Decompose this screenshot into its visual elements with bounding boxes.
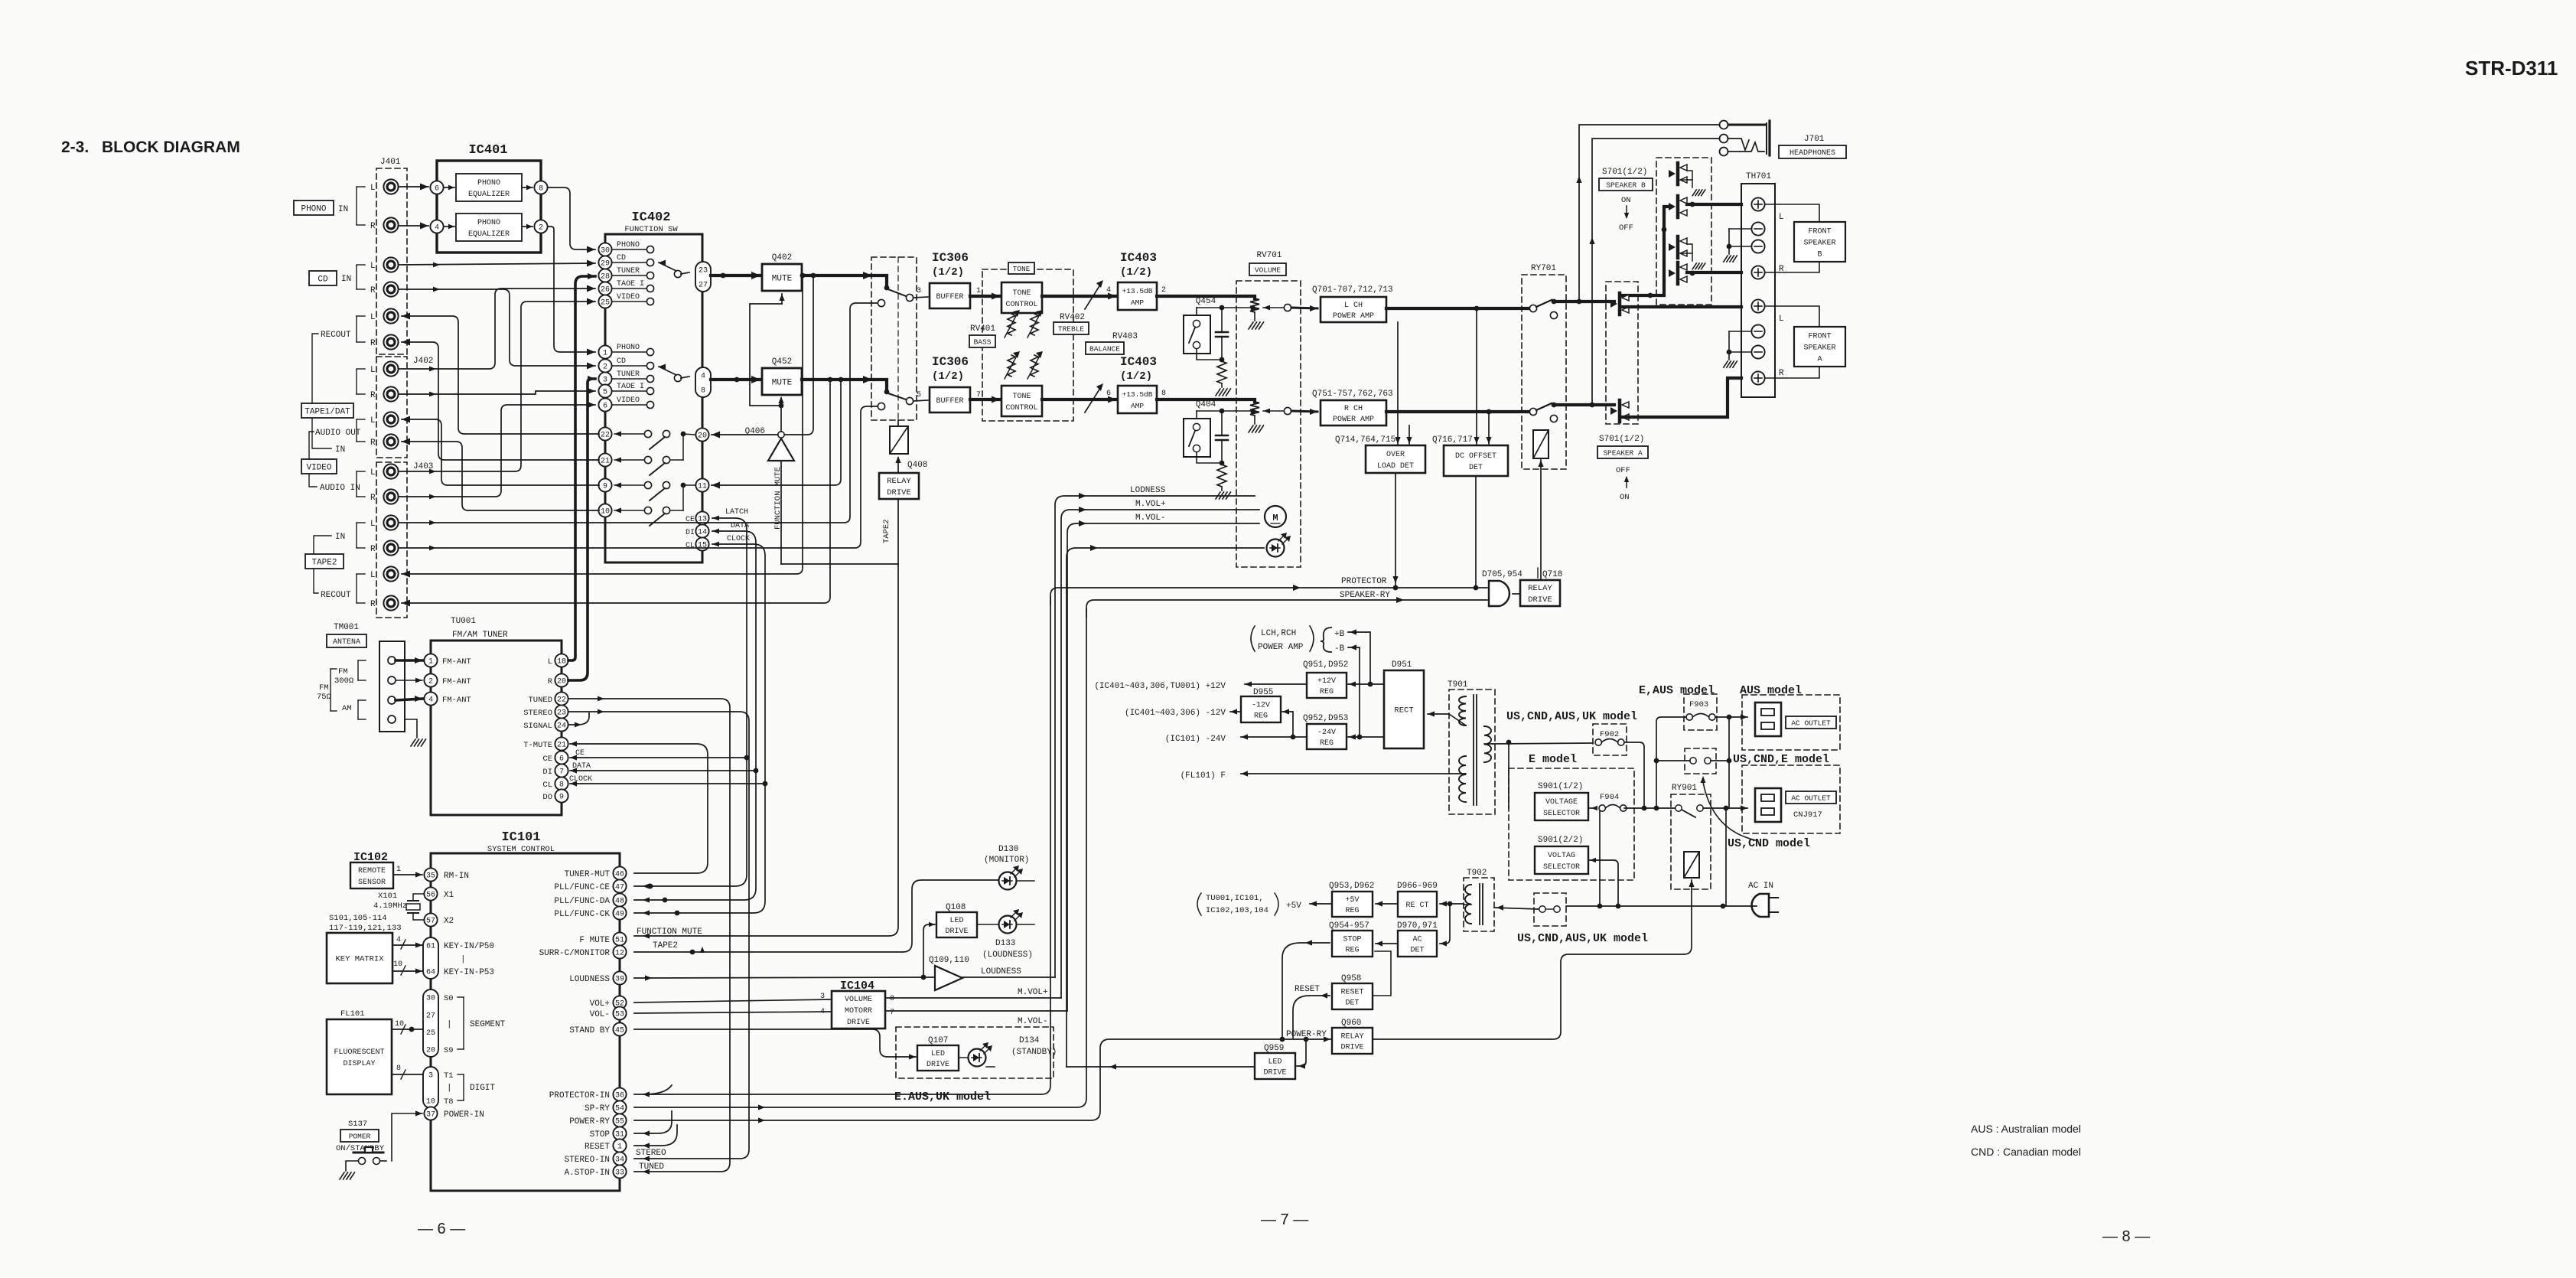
svg-text:R: R bbox=[370, 494, 376, 503]
wire pin4 to equalizer bbox=[444, 226, 454, 227]
+5V REG box bbox=[1332, 892, 1373, 917]
IC402 pin 30 row PHONO bbox=[612, 249, 646, 250]
tuner pin 1 bbox=[424, 654, 437, 667]
IC101 pin 1 RESET bbox=[613, 1139, 626, 1152]
svg-text:DRIVE: DRIVE bbox=[887, 488, 911, 497]
IC401 pin 4 bbox=[430, 220, 443, 233]
svg-text:20: 20 bbox=[698, 432, 707, 441]
svg-text:STR-D311: STR-D311 bbox=[2465, 57, 2558, 80]
svg-text:1: 1 bbox=[396, 866, 401, 874]
svg-text:US,CND,AUS,UK model: US,CND,AUS,UK model bbox=[1506, 710, 1637, 723]
svg-text:|: | bbox=[461, 955, 466, 964]
wire Q960 to RY901 coil bbox=[1373, 880, 1692, 1039]
wire RECT to -24V reg bbox=[1348, 736, 1384, 738]
RCA jack J40x-6 bbox=[383, 334, 398, 349]
headphone tap L bbox=[1579, 125, 1720, 302]
AC DET box bbox=[1398, 931, 1437, 957]
svg-text:TONE: TONE bbox=[1012, 289, 1031, 298]
svg-text:R: R bbox=[1779, 369, 1784, 378]
RCA jack J40x-10 bbox=[383, 434, 398, 448]
svg-text:Q951,D952: Q951,D952 bbox=[1303, 660, 1348, 670]
svg-text:L: L bbox=[370, 313, 376, 322]
svg-text:L: L bbox=[370, 184, 376, 193]
TH701 terminal + bbox=[1751, 371, 1764, 384]
E AUS UK model dashed box bbox=[896, 1027, 1054, 1078]
svg-text:L: L bbox=[370, 262, 376, 271]
svg-text:BLOCK DIAGRAM: BLOCK DIAGRAM bbox=[102, 139, 240, 156]
svg-text:— 8 —: — 8 — bbox=[2102, 1228, 2150, 1245]
svg-text:DATA: DATA bbox=[572, 762, 591, 771]
AUS outlet dashed box bbox=[1742, 695, 1840, 750]
svg-text:1: 1 bbox=[428, 658, 433, 667]
RESET wire bbox=[1293, 996, 1330, 1038]
svg-text:LED: LED bbox=[931, 1050, 945, 1058]
svg-text:S701(1/2): S701(1/2) bbox=[1602, 168, 1647, 177]
IC402 pin 28 row TUNER bbox=[612, 275, 646, 276]
svg-text:S901(2/2): S901(2/2) bbox=[1538, 836, 1583, 845]
svg-text:SELECTOR: SELECTOR bbox=[1543, 810, 1580, 818]
svg-text:ANTENA: ANTENA bbox=[333, 638, 360, 647]
speaker B contact 3 bbox=[1676, 236, 1680, 258]
svg-text:TAOE I: TAOE I bbox=[617, 280, 644, 289]
antenna ground bbox=[405, 719, 417, 738]
svg-text:PLL/FUNC-DA: PLL/FUNC-DA bbox=[554, 897, 610, 906]
LOUDNESS wire to Q109 bbox=[634, 977, 933, 978]
svg-text:55: 55 bbox=[615, 1118, 624, 1126]
svg-text:TONE: TONE bbox=[1013, 265, 1031, 273]
KEY MATRIX box bbox=[327, 933, 392, 983]
svg-text:M.VOL+: M.VOL+ bbox=[1135, 500, 1166, 509]
svg-text:DET: DET bbox=[1345, 999, 1359, 1008]
svg-text:31: 31 bbox=[615, 1131, 624, 1139]
wire IC401 pin8 to IC402 pin30 bbox=[548, 187, 595, 249]
svg-text:T-MUTE: T-MUTE bbox=[523, 741, 552, 750]
bass pot L bbox=[1008, 314, 1015, 335]
svg-text:A: A bbox=[1817, 356, 1822, 364]
svg-text:RM-IN: RM-IN bbox=[444, 872, 469, 881]
IC101 pin 34 STEREO-IN bbox=[613, 1152, 626, 1165]
bottom switch dashed box bbox=[1534, 893, 1566, 926]
IC101 pins 3-10 stadium digit bbox=[423, 1067, 438, 1108]
svg-text:TUNER: TUNER bbox=[617, 370, 640, 379]
wire VIDEO AUDIO IN L jack to IC402 pin25 bbox=[399, 302, 595, 471]
svg-text:STOP: STOP bbox=[1343, 936, 1361, 944]
svg-text:48: 48 bbox=[615, 898, 624, 906]
svg-text:4: 4 bbox=[701, 373, 705, 381]
speaker B contact 4 bbox=[1676, 262, 1680, 284]
wire TAPE2 IN L jack to monitor switch bbox=[399, 303, 877, 523]
SURR-C monitor wire to D130 bbox=[634, 880, 998, 952]
IC402 pin 5 row TAOE I bbox=[612, 390, 646, 392]
svg-text:BUFFER: BUFFER bbox=[936, 293, 963, 302]
svg-text:28: 28 bbox=[601, 273, 610, 282]
svg-text:F903: F903 bbox=[1689, 700, 1708, 709]
svg-text:TU001: TU001 bbox=[451, 617, 476, 626]
IC402 selector contact group1 bbox=[674, 270, 681, 277]
svg-text:R CH: R CH bbox=[1344, 405, 1363, 413]
TONE CONTROL L box bbox=[1001, 282, 1042, 313]
svg-text:R: R bbox=[370, 438, 376, 448]
svg-text:S0: S0 bbox=[444, 994, 454, 1003]
svg-text:FM: FM bbox=[338, 667, 348, 676]
svg-text:S701(1/2): S701(1/2) bbox=[1599, 435, 1644, 444]
svg-text:TONE: TONE bbox=[1012, 393, 1031, 401]
US CND E outlet dashed box bbox=[1742, 765, 1840, 833]
svg-text:47: 47 bbox=[615, 884, 624, 892]
svg-text:+12V: +12V bbox=[1317, 677, 1336, 686]
svg-text:5: 5 bbox=[603, 389, 607, 397]
headphone plug symbol bbox=[1728, 124, 1765, 126]
svg-text:4.19MHz: 4.19MHz bbox=[373, 901, 407, 911]
wire loudness amp output bbox=[962, 976, 1055, 978]
wire RY901 switch to AC bbox=[1703, 807, 1726, 809]
svg-text:R: R bbox=[370, 222, 376, 231]
svg-text:S901(1/2): S901(1/2) bbox=[1538, 782, 1583, 791]
svg-text:STEREO: STEREO bbox=[523, 709, 552, 718]
wire tone control R to amp R with balance pot bbox=[1042, 398, 1116, 401]
svg-text:IC403: IC403 bbox=[1120, 251, 1157, 265]
svg-text:RELAY: RELAY bbox=[887, 477, 911, 486]
wire middle switch bbox=[1656, 760, 1690, 761]
svg-text:AUS : Australian model: AUS : Australian model bbox=[1971, 1123, 2081, 1135]
svg-text:|: | bbox=[447, 1020, 452, 1029]
svg-text:IN: IN bbox=[341, 275, 351, 284]
wire Q402 output to IC402 pin20 bbox=[712, 275, 813, 435]
svg-text:CND : Canadian model: CND : Canadian model bbox=[1971, 1146, 2081, 1158]
TONE label box bbox=[1008, 262, 1034, 274]
L CH POWER AMP box bbox=[1321, 297, 1386, 322]
svg-text:Q714,764,715: Q714,764,715 bbox=[1335, 435, 1395, 445]
svg-text:Q108: Q108 bbox=[946, 903, 966, 912]
svg-text:FRONT: FRONT bbox=[1808, 228, 1831, 236]
tuner pin 20 R bbox=[555, 673, 568, 686]
svg-text:OFF: OFF bbox=[1619, 223, 1633, 233]
svg-text:Q454: Q454 bbox=[1196, 297, 1216, 306]
svg-text:M: M bbox=[1272, 513, 1278, 523]
IC401 outline box bbox=[437, 161, 541, 253]
T901 secondary top winding bbox=[1459, 696, 1466, 725]
FRONT SPEAKER B box bbox=[1794, 222, 1845, 262]
wire display to segment pins bbox=[392, 1029, 422, 1030]
AC main line bbox=[1723, 905, 1757, 907]
tuner pin 22 TUNED bbox=[555, 692, 568, 705]
svg-text:+5V: +5V bbox=[1345, 896, 1359, 905]
wire equalizer to pin8 bbox=[522, 187, 532, 188]
svg-text:AMP: AMP bbox=[1131, 402, 1144, 410]
svg-text:FLUORESCENT: FLUORESCENT bbox=[334, 1048, 384, 1057]
svg-text:-B: -B bbox=[1334, 644, 1345, 654]
svg-text:SP-RY: SP-RY bbox=[585, 1104, 610, 1113]
wire equalizer to pin2 bbox=[522, 226, 532, 227]
svg-text:IC101: IC101 bbox=[501, 830, 540, 845]
svg-text:TUNED: TUNED bbox=[639, 1162, 664, 1172]
AUS AC OUTLET label bbox=[1786, 716, 1836, 729]
F903 fuse bbox=[1684, 694, 1717, 730]
svg-text:FL101: FL101 bbox=[340, 1009, 365, 1019]
tuner pin 2 bbox=[424, 673, 437, 686]
vertical to lower outlet bbox=[1728, 717, 1730, 808]
svg-text:DISPLAY: DISPLAY bbox=[343, 1060, 375, 1068]
E model dashed box bbox=[1509, 768, 1634, 880]
svg-text:— 7 —: — 7 — bbox=[1261, 1211, 1308, 1228]
svg-text:KEY-IN/P50: KEY-IN/P50 bbox=[444, 942, 494, 951]
svg-text:VIDEO: VIDEO bbox=[617, 396, 640, 405]
svg-text:3: 3 bbox=[820, 993, 825, 1001]
svg-text:PHONO: PHONO bbox=[617, 344, 640, 352]
wiper line to Q454 bbox=[1197, 307, 1252, 308]
volume motor M bbox=[1265, 506, 1286, 527]
svg-text:8: 8 bbox=[539, 185, 543, 194]
S901 2/2 VOLTAG SELECTOR box bbox=[1535, 846, 1588, 874]
svg-text:RV701: RV701 bbox=[1256, 251, 1281, 260]
svg-text:3: 3 bbox=[917, 287, 921, 295]
wire R line to dc offset det bbox=[1488, 412, 1490, 444]
antenna terminal bbox=[388, 716, 396, 723]
svg-text:DRIVE: DRIVE bbox=[945, 928, 968, 936]
svg-text:33: 33 bbox=[615, 1169, 624, 1178]
M.VOL- wire bbox=[1067, 523, 1259, 1011]
svg-text:TAPE2: TAPE2 bbox=[311, 558, 337, 567]
US AC outlet symbol bbox=[1755, 788, 1781, 822]
svg-text:22: 22 bbox=[557, 696, 566, 705]
svg-text:(IC101) -24V: (IC101) -24V bbox=[1165, 735, 1226, 744]
IC402 pin 26 row TAOE I bbox=[612, 288, 646, 289]
IC102 REMOTE SENSOR box bbox=[350, 862, 393, 888]
IC402 pin 11 bbox=[695, 478, 708, 491]
M.VOL+ wire bbox=[1061, 510, 1259, 998]
svg-text:S9: S9 bbox=[444, 1046, 454, 1055]
svg-text:27: 27 bbox=[426, 1012, 435, 1020]
TH701 terminal + bbox=[1751, 197, 1764, 210]
Q959 LED DRIVE box bbox=[1255, 1053, 1295, 1079]
svg-text:TUNER-MUT: TUNER-MUT bbox=[565, 870, 611, 879]
svg-text:IC102,103,104: IC102,103,104 bbox=[1206, 906, 1268, 915]
svg-text:Q952,D953: Q952,D953 bbox=[1303, 714, 1348, 723]
svg-text:FUNCTION MUTE: FUNCTION MUTE bbox=[637, 928, 702, 937]
RCA jack J40x-8 bbox=[383, 386, 398, 401]
wiper line to Q404 bbox=[1197, 410, 1252, 412]
wire T902 to RECT2 bbox=[1440, 903, 1464, 905]
svg-text:KEY-IN-P53: KEY-IN-P53 bbox=[444, 968, 494, 977]
speaker B ground wires bbox=[1729, 228, 1751, 230]
svg-text:KEY MATRIX: KEY MATRIX bbox=[335, 955, 384, 964]
svg-text:F904: F904 bbox=[1600, 793, 1619, 802]
volume LED wire bbox=[1067, 548, 1264, 1067]
svg-text:45: 45 bbox=[615, 1027, 624, 1035]
svg-text:D133: D133 bbox=[995, 939, 1015, 948]
svg-text:R: R bbox=[1779, 265, 1784, 274]
svg-text:IN: IN bbox=[338, 205, 348, 214]
svg-text:20: 20 bbox=[426, 1047, 435, 1055]
IC402 pin 3 row TUNER bbox=[612, 378, 646, 380]
RCA jack J40x-13 bbox=[383, 515, 398, 530]
US AC OUTLET label bbox=[1786, 791, 1836, 804]
svg-text:6: 6 bbox=[1106, 390, 1111, 398]
STEREO wire to IC101 bbox=[568, 712, 749, 1159]
IC101 pin 39 LOUDNESS bbox=[613, 971, 626, 984]
svg-text:26: 26 bbox=[601, 286, 610, 295]
svg-text:22: 22 bbox=[601, 432, 610, 440]
IC402 pins 4 8 stadium bbox=[695, 367, 711, 397]
svg-text:4: 4 bbox=[428, 696, 433, 705]
svg-text:VOL-: VOL- bbox=[590, 1010, 610, 1019]
PHONO IN label bbox=[294, 201, 334, 215]
svg-text:(MONITOR): (MONITOR) bbox=[984, 856, 1029, 865]
svg-text:35: 35 bbox=[426, 872, 435, 881]
svg-text:CONTROL: CONTROL bbox=[1005, 404, 1037, 412]
treble pot R bbox=[1031, 355, 1038, 377]
svg-text:R: R bbox=[548, 677, 553, 686]
svg-text:PLL/FUNC-CK: PLL/FUNC-CK bbox=[554, 910, 610, 919]
RCA jack J40x-15 bbox=[383, 566, 398, 581]
RCA jack J40x-5 bbox=[383, 308, 398, 323]
S701 speaker A contact lower bbox=[1618, 400, 1622, 422]
wire Q406 control net bbox=[780, 461, 782, 564]
svg-text:TUNED: TUNED bbox=[528, 696, 552, 705]
svg-text:VOLTAGE: VOLTAGE bbox=[1545, 798, 1578, 807]
svg-text:23: 23 bbox=[557, 709, 566, 718]
-24V output wire bbox=[1241, 736, 1307, 738]
tuner pin 4 bbox=[424, 692, 437, 705]
S901 1/2 VOLTAGE SELECTOR box bbox=[1535, 793, 1588, 820]
antenna terminal box bbox=[379, 641, 405, 732]
svg-text:FM/AM TUNER: FM/AM TUNER bbox=[452, 631, 508, 640]
wire dc offset det to protector line bbox=[1475, 476, 1477, 586]
RCA jack J40x-4 bbox=[383, 282, 398, 296]
svg-text:CE: CE bbox=[542, 755, 552, 764]
svg-text:T902: T902 bbox=[1467, 869, 1487, 878]
svg-text:A.STOP-IN: A.STOP-IN bbox=[565, 1169, 610, 1178]
svg-text:LOAD DET: LOAD DET bbox=[1377, 462, 1414, 471]
TH701 terminal + bbox=[1751, 299, 1764, 312]
speaker B connection wires bbox=[1765, 204, 1819, 221]
wire Q452 output to TAPE2 RECOUT R jack bbox=[402, 381, 830, 603]
svg-text:29: 29 bbox=[601, 260, 610, 269]
T901 secondary bottom winding bbox=[1459, 756, 1466, 802]
RY701 dashed box bbox=[1522, 275, 1566, 469]
IC101 pin 12 SURR-C/MONITOR bbox=[613, 945, 626, 958]
tuner pin 21 T-MUTE bbox=[555, 737, 568, 750]
svg-text:DRIVE: DRIVE bbox=[927, 1061, 949, 1069]
IC101 pin 31 STOP bbox=[613, 1126, 626, 1139]
IC402 pin 6 row VIDEO bbox=[612, 404, 646, 406]
svg-text:+13.5dB: +13.5dB bbox=[1122, 287, 1153, 295]
wire key matrix to pin61 bbox=[392, 944, 422, 946]
svg-text:VIDEO: VIDEO bbox=[306, 463, 331, 472]
wire L line to dc offset det bbox=[1476, 308, 1477, 444]
svg-text:— 6 —: — 6 — bbox=[418, 1221, 465, 1237]
svg-text:D966-969: D966-969 bbox=[1397, 882, 1438, 891]
svg-text:L: L bbox=[370, 571, 376, 580]
svg-text:6: 6 bbox=[603, 403, 607, 411]
svg-text:PHONO: PHONO bbox=[617, 241, 640, 249]
svg-text:7: 7 bbox=[559, 768, 564, 777]
tuner L output to IC402 pin28 bbox=[568, 276, 595, 660]
svg-text:TREBLE: TREBLE bbox=[1058, 324, 1085, 333]
svg-text:Q716,717: Q716,717 bbox=[1432, 435, 1473, 445]
wire pin6 to equalizer bbox=[444, 187, 454, 188]
+5V arrow wire bbox=[1310, 903, 1331, 905]
volume pot R bbox=[1250, 402, 1259, 416]
RCA jack J40x-11 bbox=[383, 464, 398, 478]
svg-text:51: 51 bbox=[615, 937, 624, 945]
PROTECTOR vertical to IC101 bbox=[634, 597, 1050, 1094]
svg-text:LED: LED bbox=[949, 917, 963, 925]
svg-text:25: 25 bbox=[601, 299, 610, 308]
tuner pin 23 STEREO bbox=[555, 705, 568, 718]
tuner R output to IC402 pin3 bbox=[568, 379, 595, 680]
wire Q452 output to IC402 pin11 bbox=[712, 381, 841, 485]
IC101 pin 36 PROTECTOR-IN bbox=[613, 1087, 626, 1100]
wire L amp output to relay RY701 bbox=[1386, 307, 1529, 310]
svg-text:J401: J401 bbox=[380, 158, 401, 167]
TONE CONTROL R box bbox=[1001, 386, 1042, 416]
LCH RCH POWER AMP note bbox=[1251, 626, 1255, 651]
svg-text:IC401: IC401 bbox=[468, 143, 507, 158]
svg-text:TAPE2: TAPE2 bbox=[653, 941, 678, 950]
wire speaker A R to terminal bbox=[1623, 378, 1741, 417]
main switched line bbox=[1624, 807, 1679, 809]
svg-text:4: 4 bbox=[396, 936, 401, 944]
svg-text:PROTECTOR: PROTECTOR bbox=[1341, 577, 1387, 586]
svg-text:DRIVE: DRIVE bbox=[1340, 1044, 1363, 1052]
wire R amp output to relay RY701 bbox=[1386, 410, 1529, 413]
svg-text:|: | bbox=[447, 1084, 452, 1093]
svg-text:-12V: -12V bbox=[1252, 702, 1270, 710]
Q960 RELAY DRIVE box bbox=[1332, 1028, 1373, 1054]
svg-text:Q406: Q406 bbox=[745, 427, 765, 436]
svg-text:SURR-C/MONITOR: SURR-C/MONITOR bbox=[539, 949, 611, 958]
svg-text:RESET: RESET bbox=[1340, 989, 1363, 997]
M.VOL+ wire from IC104 bbox=[885, 997, 1061, 999]
svg-text:POWER AMP: POWER AMP bbox=[1333, 312, 1374, 321]
svg-text:4: 4 bbox=[435, 224, 439, 233]
speaker A ground wires bbox=[1729, 331, 1751, 332]
wire voltage selector to F904 bbox=[1588, 807, 1595, 809]
svg-text:L: L bbox=[370, 416, 376, 425]
IC101 pin 52 VOL+ bbox=[613, 996, 626, 1009]
RESET hook wire bbox=[634, 1125, 677, 1146]
svg-text:DO: DO bbox=[542, 793, 552, 802]
svg-text:+B: +B bbox=[1334, 630, 1345, 639]
svg-text:1: 1 bbox=[603, 350, 607, 358]
IC402 pin 29 row CD bbox=[612, 262, 646, 263]
svg-text:AC OUTLET: AC OUTLET bbox=[1791, 794, 1831, 802]
tuner pin 7 DI bbox=[555, 764, 568, 777]
wire antenna to pin2 bbox=[396, 680, 422, 681]
svg-text:RY901: RY901 bbox=[1672, 784, 1697, 793]
svg-text:RV401: RV401 bbox=[970, 324, 995, 334]
svg-text:POWER AMP: POWER AMP bbox=[1258, 643, 1304, 652]
relay symbol above Q408 bbox=[890, 426, 908, 454]
IC101 pin 54 SP-RY bbox=[613, 1100, 626, 1113]
svg-text:4: 4 bbox=[820, 1008, 825, 1016]
svg-text:53: 53 bbox=[615, 1011, 624, 1019]
svg-text:L CH: L CH bbox=[1344, 302, 1363, 310]
svg-text:11: 11 bbox=[698, 483, 707, 491]
svg-text:10: 10 bbox=[426, 1098, 435, 1107]
svg-text:D970,971: D970,971 bbox=[1397, 921, 1438, 931]
cap and resistor to ground R bbox=[1220, 461, 1225, 466]
-24V REG box bbox=[1307, 724, 1347, 749]
svg-text:Q960: Q960 bbox=[1341, 1019, 1361, 1028]
IC402 pin 15 CL bbox=[695, 537, 708, 550]
svg-text:OFF: OFF bbox=[1616, 466, 1630, 475]
svg-text:T901: T901 bbox=[1448, 680, 1468, 690]
phono equalizer R box bbox=[456, 214, 522, 241]
RCA jack J40x-2 bbox=[383, 217, 398, 232]
svg-text:30: 30 bbox=[426, 995, 435, 1003]
